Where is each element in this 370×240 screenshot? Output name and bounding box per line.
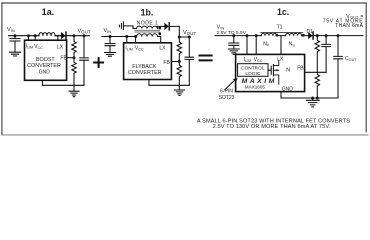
svg-text:LOGIC: LOGIC xyxy=(245,71,260,77)
transformer core (1b) xyxy=(135,30,160,32)
IC box flyback converter (1b) xyxy=(124,43,172,80)
svg-text:VCC: VCC xyxy=(254,57,263,63)
arrow pointer to IC xyxy=(225,81,234,90)
junction dots VIN rail (1b) xyxy=(109,35,138,38)
wire ILIM stub (1a) xyxy=(28,36,30,41)
svg-text:VCC: VCC xyxy=(135,45,144,51)
wire FB (1b) xyxy=(171,61,179,63)
junction dots VOUT rail (1c) xyxy=(316,34,340,37)
wire ILIM stub (1b) xyxy=(126,37,128,43)
svg-text:FB: FB xyxy=(297,66,304,72)
svg-text:COUT: COUT xyxy=(345,56,357,62)
wire node1 to winding xyxy=(124,26,133,29)
svg-text:CONVERTER: CONVERTER xyxy=(27,63,61,69)
svg-text:GND: GND xyxy=(282,87,294,93)
svg-text:CONVERTER: CONVERTER xyxy=(128,70,162,76)
svg-text:MAX1605: MAX1605 xyxy=(245,85,266,90)
diode D1 xyxy=(308,32,313,39)
svg-text:GND: GND xyxy=(39,69,51,75)
wire VCC stub (1a) xyxy=(34,36,36,41)
svg-text:2.5V TO 5.5V: 2.5V TO 5.5V xyxy=(217,30,247,36)
capacitor stray at node1 xyxy=(119,22,123,30)
wire ILIM stub (1c) xyxy=(246,36,248,55)
resistor R4 divider bottom (1b) xyxy=(177,62,181,90)
inductor L1 (1a) xyxy=(39,33,55,36)
junction dot FB (1b) xyxy=(178,60,181,63)
resistor R2 divider bottom (1a) xyxy=(72,58,76,91)
svg-text:CONTROL: CONTROL xyxy=(241,65,265,71)
svg-text:VOUT: VOUT xyxy=(78,29,92,35)
resistor R3 divider top (1b) xyxy=(177,37,181,62)
junction dots on VIN rail (1a) xyxy=(14,34,37,37)
capacitor input (1b) xyxy=(105,37,115,53)
svg-text:ILIM: ILIM xyxy=(244,57,251,63)
svg-text:SOT23: SOT23 xyxy=(219,95,235,101)
ground bottom (1a) xyxy=(69,91,79,97)
capacitor input (1a) xyxy=(10,36,20,52)
svg-text:T1: T1 xyxy=(277,24,283,30)
junction dot FB (1a) xyxy=(73,56,76,59)
capacitor output (1b) xyxy=(185,37,194,85)
capacitor COUT (1c) xyxy=(334,36,343,98)
wire LX stub (1a) xyxy=(57,36,59,41)
svg-text:6-PIN: 6-PIN xyxy=(220,89,233,95)
ground bottom (1b) xyxy=(175,90,185,96)
wire VIN rail (1b) xyxy=(102,36,137,38)
wire VOUT rail (1c) xyxy=(313,35,363,37)
transformer T1 secondary Ns xyxy=(286,33,309,35)
svg-text:ILIM: ILIM xyxy=(26,44,33,50)
border frame xyxy=(2,3,366,135)
transformer T1 primary Np xyxy=(261,33,285,35)
svg-text:1c.: 1c. xyxy=(277,7,289,17)
svg-text:1a.: 1a. xyxy=(42,7,54,17)
symbol plus xyxy=(94,58,103,67)
transformer secondary bottom winding (1b) xyxy=(137,34,161,43)
wire LX stub (1c) xyxy=(280,36,282,55)
ground input (1c) xyxy=(228,49,239,54)
svg-text:FB: FB xyxy=(163,60,170,66)
junction dots output (1a) xyxy=(73,34,86,37)
svg-text:VCC: VCC xyxy=(34,44,43,50)
wire VCC stub (1c) xyxy=(255,36,257,55)
svg-text:FLYBACK: FLYBACK xyxy=(132,64,157,70)
diode rectifier (1b) xyxy=(164,23,169,30)
box control logic xyxy=(238,64,268,77)
svg-text:2.5V TO 130V OR MORE THAN 6mA: 2.5V TO 130V OR MORE THAN 6mA AT 75V. xyxy=(213,124,331,130)
svg-text:THAN 6mA: THAN 6mA xyxy=(335,23,363,29)
resistor R6 divider bottom (1c) xyxy=(315,72,319,98)
svg-text:NS: NS xyxy=(289,41,296,47)
diode rectifier (1a) xyxy=(61,32,66,39)
svg-text:LX: LX xyxy=(57,44,64,50)
phase dot Ns xyxy=(302,34,305,37)
ground input (1a) xyxy=(10,52,21,56)
IC box boost converter (1a) xyxy=(25,40,67,80)
resistor R1 divider top (1a) xyxy=(72,36,76,58)
wire ground bus (1c) xyxy=(281,92,338,98)
transformer T1 core xyxy=(261,32,303,34)
svg-text:NP: NP xyxy=(263,41,270,47)
phase dot Np xyxy=(276,34,279,37)
capacitor output (1a) xyxy=(80,36,89,86)
junction dots ground bus (1c) xyxy=(311,97,319,100)
wire VCC stub (1b) xyxy=(135,37,137,43)
wire output rail (1a) xyxy=(55,35,89,37)
ground input (1b) xyxy=(105,53,116,57)
svg-text:LX: LX xyxy=(277,57,284,63)
wire winding to diode (1b) xyxy=(158,26,165,28)
border frame bottom edge xyxy=(2,134,368,136)
svg-text:VIN: VIN xyxy=(7,27,15,33)
svg-text:ILIM: ILIM xyxy=(125,45,132,51)
symbol equals xyxy=(200,56,212,61)
wire diode to VOUT rail (1b) xyxy=(169,26,189,37)
transistor N-FET (1c) xyxy=(268,65,273,76)
svg-text:NODE 1: NODE 1 xyxy=(137,20,159,26)
svg-text:VIN: VIN xyxy=(104,28,112,34)
junction dots VIN rail (1c) xyxy=(232,34,257,37)
IC box MAX1605 (1c) xyxy=(236,54,305,91)
wire VIN rail (1c) xyxy=(215,35,261,37)
wire VIN rail (1a) xyxy=(9,35,61,37)
svg-text:1b.: 1b. xyxy=(141,7,154,17)
wire FB (1c) xyxy=(305,71,327,73)
junction dots VOUT (1b) xyxy=(178,36,191,39)
ground bottom (1c) xyxy=(306,98,319,107)
wire ground bus (1a) xyxy=(42,80,84,85)
svg-text:VOUT: VOUT xyxy=(183,30,197,36)
svg-text:FB: FB xyxy=(60,55,67,61)
svg-text:VIN: VIN xyxy=(217,25,225,31)
phase dots (1b) xyxy=(158,27,161,36)
transformer T primary top winding (1b) xyxy=(133,26,158,28)
capacitor feedforward (1c) xyxy=(322,36,331,73)
resistor R5 divider top (1c) xyxy=(315,36,319,73)
svg-text:LX: LX xyxy=(159,46,166,52)
svg-text:N: N xyxy=(286,68,290,74)
wire ground bus (1b) xyxy=(149,80,189,86)
wire FB (1a) xyxy=(67,57,74,59)
capacitor input (1c) xyxy=(229,36,239,49)
